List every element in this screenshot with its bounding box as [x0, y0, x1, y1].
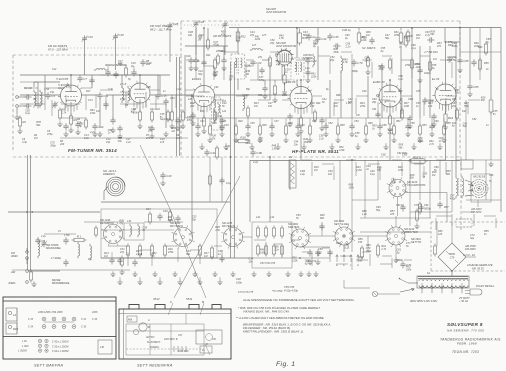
wire fm h5	[24, 87, 38, 89]
wire mesh v 21	[391, 58, 393, 74]
wire mesh h 39	[254, 239, 266, 241]
wire mesh v 18	[329, 58, 331, 74]
svg-text:AVST.INDIKATOR: AVST.INDIKATOR	[265, 11, 286, 14]
wire mesh v 1	[44, 95, 46, 110]
label texture right-col 5	[493, 110, 498, 116]
resistor R2	[18, 116, 26, 129]
wire mesh v 47	[473, 214, 475, 226]
svg-text:KI.-KONDKT.: KI.-KONDKT.	[147, 342, 161, 344]
svg-text:C37: C37	[274, 120, 279, 123]
node junction 7	[230, 156, 232, 158]
wire ps v2	[451, 222, 453, 243]
svg-text:150: 150	[358, 241, 363, 244]
svg-text:C28: C28	[173, 22, 179, 26]
capacitor C7	[77, 75, 87, 82]
label texture hf-bottom 2	[225, 145, 230, 151]
node FM antenna terminal upper	[16, 96, 19, 99]
resistor R19	[236, 135, 251, 142]
label pair 68	[299, 170, 305, 176]
svg-text:1,5k: 1,5k	[272, 148, 277, 151]
label pair 36	[464, 102, 469, 108]
wire mesh h 43	[340, 255, 352, 257]
node board lower-right box	[98, 340, 112, 354]
svg-text:AM: AM	[10, 270, 16, 274]
wire mesh v 39	[281, 246, 283, 258]
label pair 23	[244, 94, 249, 100]
node junction 10	[409, 159, 411, 161]
label pair 48	[120, 248, 125, 254]
svg-text:120: 120	[438, 233, 443, 236]
wire tube lead fan 4	[295, 107, 307, 114]
label hfbot 2	[212, 122, 217, 125]
label texture right-col 1	[439, 137, 444, 143]
wire right col v3	[459, 28, 461, 58]
svg-text:L23: L23	[222, 100, 227, 103]
resistor R21	[236, 30, 246, 44]
label texture det 3	[167, 216, 174, 222]
label texture fm-bottom 5	[79, 122, 84, 128]
svg-text:2,2µ: 2,2µ	[252, 160, 259, 164]
label C51C52	[260, 262, 276, 265]
wire hfbot drop 5	[247, 118, 249, 126]
wire L1 top	[33, 82, 35, 87]
resistor RC3	[272, 226, 275, 239]
label FM OSC KRETS	[150, 24, 172, 31]
label value 14	[306, 90, 311, 93]
label nett-e-del	[334, 219, 350, 226]
label NR.2028	[275, 42, 296, 48]
node transformer tap 3	[441, 283, 443, 289]
wire mesh v 34	[151, 252, 153, 266]
label 1.5M	[64, 234, 69, 237]
ground hfbot 5	[295, 131, 300, 136]
wire mesh v 44	[391, 258, 393, 268]
capacitor C67	[431, 113, 436, 120]
label R58v	[484, 62, 489, 65]
svg-text:C44: C44	[214, 86, 219, 89]
svg-text:C61: C61	[372, 108, 377, 111]
label R32	[408, 34, 413, 38]
resistor R17b	[208, 174, 211, 187]
ground V3 cathode	[298, 128, 303, 133]
wire mesh v 52	[379, 166, 381, 180]
wire rail mid hf	[185, 117, 410, 119]
ground hfbot r 2	[233, 137, 238, 142]
svg-text:C33: C33	[224, 124, 229, 127]
label value 13	[281, 94, 288, 97]
note line 1	[242, 298, 355, 302]
label texture af-mid 2	[366, 165, 371, 171]
label hfbot 6	[262, 124, 267, 127]
svg-text:220k: 220k	[254, 38, 261, 41]
label texture mid-top 1	[313, 40, 318, 46]
ground C42	[305, 77, 310, 82]
wire fm terminal a	[26, 248, 28, 252]
label texture hf-mid 6	[397, 75, 403, 81]
wire mesh h 44	[362, 251, 370, 253]
capacitor C45	[327, 33, 338, 40]
label C33	[28, 318, 34, 321]
inductor L8	[128, 86, 130, 103]
wire mesh h 35	[140, 249, 152, 251]
label NM SERIENR	[447, 329, 484, 333]
label NR.2513B	[473, 176, 486, 179]
resistor RB2	[138, 244, 141, 258]
label pair 38	[34, 134, 38, 140]
svg-text:MF.TRAFO: MF.TRAFO	[222, 224, 235, 228]
capacitor C4	[45, 92, 55, 99]
svg-text:C66: C66	[489, 174, 494, 177]
wire mr v9	[429, 46, 431, 118]
wire speaker down	[477, 200, 479, 207]
label 61P	[427, 272, 431, 275]
svg-text:C46 2µ: C46 2µ	[342, 28, 351, 32]
ground C14	[92, 131, 97, 136]
wire fm h2	[61, 103, 80, 105]
label board extra1	[92, 311, 98, 321]
ground hfbot 6	[323, 131, 328, 136]
wire C28b stem	[195, 27, 197, 55]
wire fm h3	[120, 103, 140, 105]
svg-text:C72: C72	[414, 204, 419, 207]
ground hfbot r 5	[307, 137, 312, 142]
ground C26	[188, 65, 193, 70]
label FEBR 1968	[457, 342, 477, 346]
label texture hf-top 6	[269, 39, 275, 45]
label pair 45	[160, 138, 165, 144]
label C26v	[186, 55, 191, 58]
node transformer tap 1	[421, 283, 423, 289]
svg-text:L31: L31	[305, 66, 310, 70]
svg-text:R57: R57	[444, 206, 449, 209]
label pair 66	[470, 234, 475, 240]
wire tube lead fan 3	[198, 105, 210, 113]
label texture hf-left 7	[285, 68, 290, 74]
node board inner left box1	[6, 308, 17, 321]
svg-text:FEBR. 1968: FEBR. 1968	[457, 342, 477, 346]
ground rowB 2	[132, 271, 137, 276]
capacitor C26	[188, 57, 199, 64]
node terminal pair 3	[62, 317, 66, 328]
svg-text:50p: 50p	[348, 101, 353, 104]
capacitor C30 trimmer	[222, 21, 228, 28]
label value 1	[52, 68, 57, 71]
ground hf d3	[221, 65, 226, 70]
svg-text:2,2n: 2,2n	[273, 249, 279, 252]
label C24v	[258, 56, 263, 59]
wire FM rail drop b	[91, 75, 93, 88]
svg-text:C 34: C 34	[28, 326, 34, 329]
resistor R33	[404, 34, 408, 48]
svg-text:JORD: JORD	[8, 281, 15, 285]
wire rc v2	[479, 28, 481, 80]
wire mesh h 12	[296, 59, 308, 61]
wire mesh v 49	[311, 162, 313, 176]
wire ps h2	[300, 246, 330, 248]
svg-text:L27: L27	[252, 44, 257, 47]
label L36v	[127, 220, 132, 223]
socket NR.3901	[289, 227, 311, 249]
label value 26	[472, 118, 477, 121]
label 390p	[352, 69, 358, 73]
label pair 47	[104, 252, 109, 258]
wire tube lead fan 1	[65, 104, 77, 112]
svg-text:3514: 3514	[153, 297, 160, 301]
wire hfbot drop 9	[297, 118, 299, 126]
label pair 57	[296, 214, 301, 220]
svg-text:TEGN.NR. 7203: TEGN.NR. 7203	[452, 350, 479, 354]
ground hfbot r 9	[417, 137, 422, 142]
label ANT KO	[145, 336, 155, 339]
svg-text:C24: C24	[256, 61, 262, 65]
label C63b	[396, 204, 404, 207]
label pair 59	[362, 210, 367, 216]
label C52row	[52, 345, 68, 348]
wire fm-hf border pair b	[179, 57, 181, 156]
resistor R antenna	[30, 270, 33, 283]
fuse G1	[372, 291, 377, 296]
label value 29	[356, 114, 361, 117]
svg-text:1,5k: 1,5k	[215, 229, 220, 232]
ground rowB 11	[298, 271, 303, 276]
label ECH81	[192, 77, 201, 81]
node junction 5	[445, 41, 447, 43]
wire mesh h 24	[258, 99, 270, 101]
ground c74	[315, 259, 320, 264]
ground fm ll2	[75, 129, 80, 134]
transformer MF2	[291, 58, 310, 80]
label C72	[414, 204, 419, 207]
resistor R47	[489, 98, 493, 115]
node board inner left box2	[6, 323, 17, 334]
tube V2 ECH81	[191, 83, 215, 106]
svg-text:330k: 330k	[260, 251, 266, 254]
capacitor C40 avc	[204, 149, 215, 156]
inductor L7	[122, 86, 124, 103]
wire rowB top rail	[101, 201, 230, 203]
svg-text:L41: L41	[256, 216, 261, 219]
wire lower horiz c	[360, 217, 431, 219]
svg-text:100p: 100p	[424, 72, 430, 75]
wire vert hf2	[317, 46, 319, 80]
node right small box	[461, 160, 473, 169]
wire mesh v 28	[377, 102, 379, 116]
resistor R34	[366, 56, 369, 69]
svg-text:C51 C52 C53: C51 C52 C53	[260, 262, 276, 265]
wire mesh v 2	[51, 100, 53, 116]
label L7 1000	[51, 257, 62, 260]
label hfbot 17	[410, 122, 415, 125]
svg-text:R61: R61	[452, 98, 457, 101]
label TEGN NR	[452, 350, 479, 354]
label pair 20	[486, 38, 491, 44]
wire mesh h 1	[20, 81, 38, 83]
wire C30 stem	[224, 28, 226, 55]
svg-text:C62: C62	[381, 153, 386, 157]
wire mesh h 6	[150, 89, 160, 91]
svg-text:C49: C49	[362, 90, 367, 93]
resistor R13	[148, 212, 151, 225]
label hfbot 18	[422, 124, 427, 127]
label hfbot 4	[238, 120, 243, 123]
wire FM rail drop a	[44, 75, 46, 95]
wire mesh h 37	[190, 249, 200, 251]
wire fm topmesh b	[107, 66, 109, 70]
wire rowB low 1	[119, 277, 121, 279]
label hfleft boost	[206, 50, 225, 57]
ground hf floor 4	[275, 144, 280, 149]
label NR.1340 mf	[170, 221, 183, 228]
resistor R30	[357, 31, 367, 45]
wire mesh h 15	[362, 59, 372, 61]
wire mesh h 51	[462, 211, 474, 213]
ground hfbot r 8	[391, 137, 396, 142]
label AM	[10, 270, 16, 274]
label TANDBERG	[440, 338, 501, 342]
label 15p	[50, 91, 55, 94]
node lower terminal row 1	[38, 339, 48, 342]
socket MF NR.1340b	[171, 225, 194, 248]
label 455kHz	[216, 49, 226, 53]
svg-text:470k: 470k	[394, 34, 400, 37]
capacitor C70a	[351, 59, 362, 66]
wire mesh h 33	[468, 99, 480, 101]
label NR.3213 volum	[407, 180, 426, 187]
ground V5 cathode	[443, 124, 448, 129]
wire FM out	[150, 94, 192, 96]
resistor RD1	[256, 244, 259, 257]
wire hf floor 6	[331, 143, 333, 144]
wire vert 250	[249, 160, 251, 222]
label pair 24	[254, 102, 259, 108]
svg-text:2,2n: 2,2n	[318, 137, 324, 140]
svg-text:4-20p 4-20p: 4-20p 4-20p	[284, 289, 299, 293]
label texture hf-bottom 8	[318, 134, 324, 140]
label pair 71	[355, 166, 362, 172]
label texture hf-mid 2	[329, 56, 335, 62]
label value 19	[375, 94, 381, 97]
wire mesh v 55	[445, 162, 447, 174]
svg-text:3,3p: 3,3p	[108, 88, 113, 91]
svg-text:50p: 50p	[391, 182, 396, 185]
svg-text:R51: R51	[396, 120, 401, 123]
svg-text:1,5M: 1,5M	[64, 234, 69, 237]
svg-text:50p: 50p	[131, 111, 136, 114]
svg-text:L24: L24	[222, 110, 227, 113]
label 300ohm band	[46, 244, 62, 250]
wire top B+ rail	[229, 27, 501, 29]
ground fm ll1	[63, 131, 68, 136]
resistor R49	[376, 244, 379, 258]
wire V1b cathode	[139, 103, 141, 112]
label value 18	[362, 90, 367, 93]
capacitor hfbot 6	[323, 123, 328, 130]
wire ant vert 27	[27, 155, 29, 270]
wire bridge out	[451, 271, 453, 277]
tube V4 EABC80	[377, 83, 402, 107]
label pair 60	[376, 206, 381, 212]
label pair 33	[416, 102, 421, 108]
svg-text:2p: 2p	[311, 35, 316, 39]
svg-text:330k: 330k	[303, 141, 309, 144]
wire rowB link3	[292, 239, 300, 241]
label pair 34	[428, 102, 433, 108]
capacitor C5 ant	[35, 237, 45, 244]
svg-text:47p: 47p	[120, 251, 125, 254]
capacitor C15	[155, 92, 166, 99]
ground eye	[282, 89, 287, 94]
ground rowB low 3	[157, 279, 162, 284]
wire hf floor 9	[413, 143, 415, 144]
label J.7 NR.643	[424, 50, 438, 54]
node junction 2	[296, 27, 298, 29]
wire hf floor 5	[303, 143, 305, 144]
label texture ifblock 3	[273, 246, 279, 252]
label pair 31	[371, 98, 377, 104]
svg-text:470k: 470k	[405, 64, 411, 67]
transformer MF1	[231, 54, 251, 79]
capacitor C30b	[157, 213, 162, 220]
label texture hf-top 7	[279, 34, 284, 40]
label pair 55	[256, 216, 261, 219]
wire chassis horiz d	[126, 330, 204, 332]
label pair 18	[452, 42, 458, 48]
ground C65	[467, 91, 472, 96]
wire mesh v 9	[155, 95, 157, 110]
label 0,1u	[226, 182, 231, 185]
resistor R14	[168, 210, 171, 223]
label value 24	[452, 98, 457, 101]
wire mesh h 57	[392, 159, 402, 161]
resistor RD4	[280, 244, 283, 257]
wire det rail	[101, 221, 124, 223]
svg-text:150k: 150k	[349, 186, 355, 189]
label L4C	[22, 340, 27, 343]
label FM HF KRETS	[48, 44, 68, 51]
label hfbot 13	[354, 120, 359, 123]
wire V3 cathode	[300, 109, 302, 119]
svg-text:MF.TRAFO: MF.TRAFO	[170, 224, 183, 228]
label C31	[81, 318, 87, 321]
wire mesh v 20	[371, 62, 373, 78]
wire mesh h 32	[446, 95, 457, 97]
node IF network frame	[252, 222, 292, 268]
node junction 14	[26, 211, 28, 213]
note line 4	[236, 315, 325, 320]
label texture mid-top 5	[381, 47, 386, 53]
wire ant low rail	[12, 269, 130, 271]
capacitor C2	[24, 103, 31, 108]
wire rc h5	[466, 199, 501, 201]
svg-text:L 30/2M: L 30/2M	[18, 350, 27, 353]
wire mesh v 7	[125, 92, 127, 108]
label value 22	[416, 90, 421, 93]
label L27v	[252, 44, 257, 47]
label 1M mr	[433, 58, 437, 61]
ground rowB 4	[172, 271, 177, 276]
capacitor C44	[315, 35, 326, 42]
svg-text:R58 0,1: R58 0,1	[413, 155, 423, 159]
wire FM vert e	[99, 98, 101, 128]
label value 8	[188, 98, 193, 101]
label hfbot 20	[446, 122, 451, 125]
label hfbot 14	[368, 122, 373, 125]
wire mr v7	[411, 28, 413, 118]
svg-text:R 1: R 1	[77, 234, 82, 238]
svg-text:NETT E-DEL: NETT E-DEL	[334, 222, 350, 226]
label texture hf-top 1	[198, 36, 203, 42]
wire mesh v 51	[355, 162, 357, 176]
